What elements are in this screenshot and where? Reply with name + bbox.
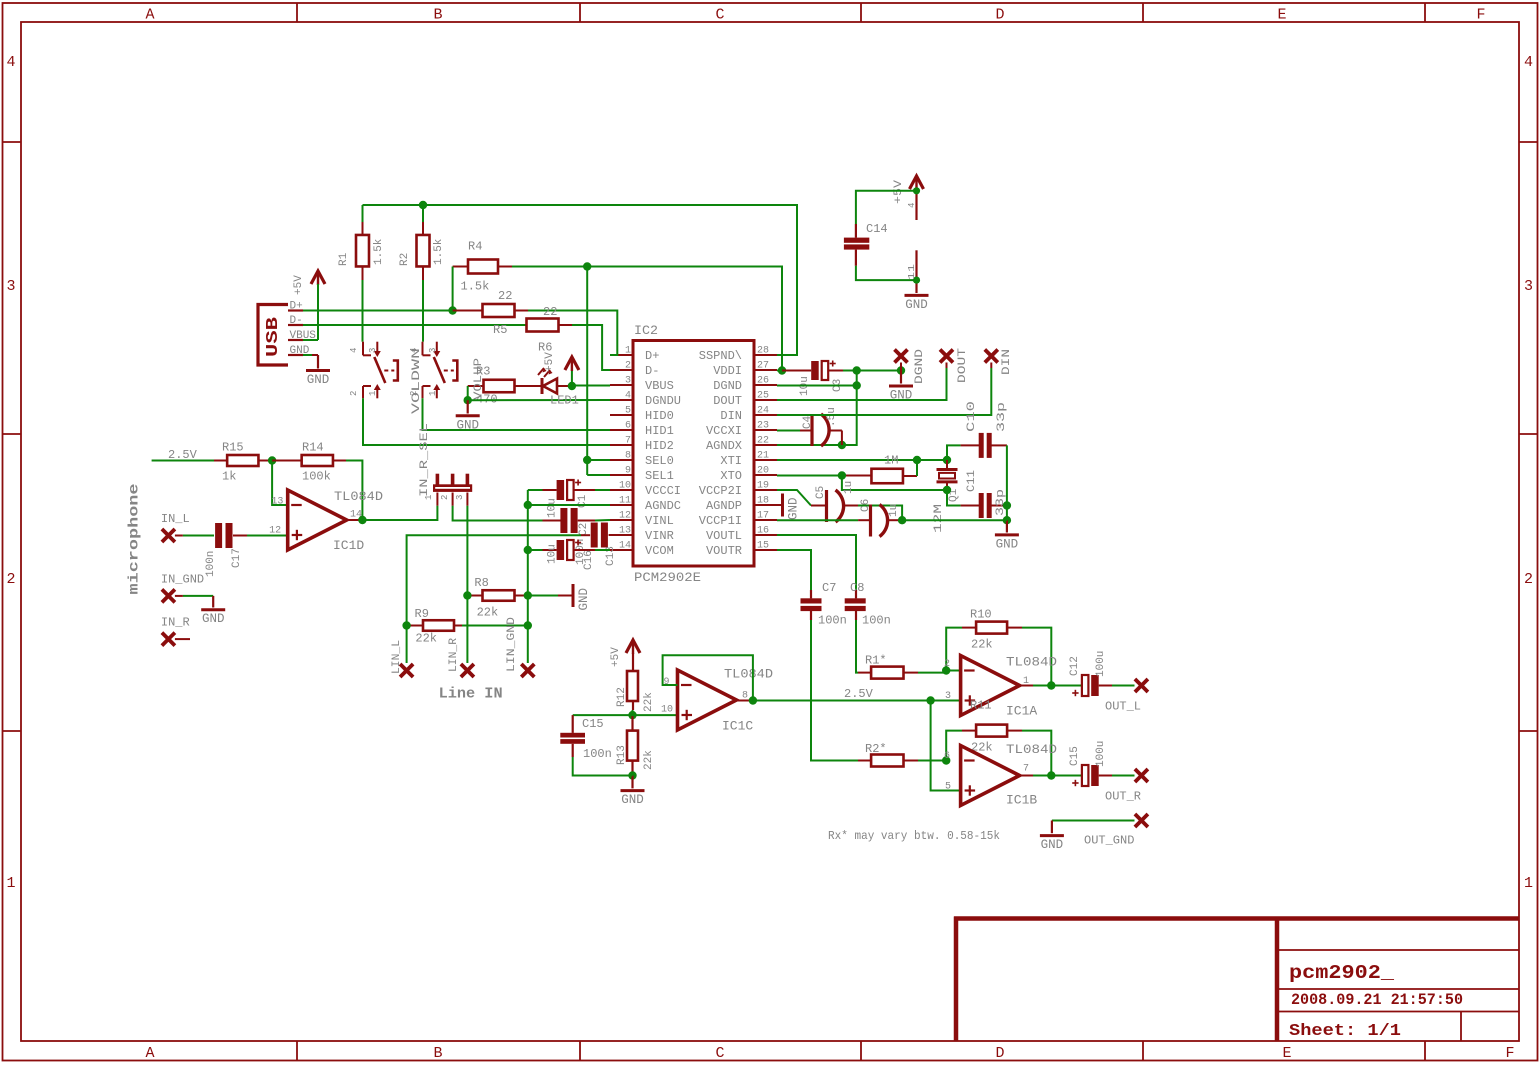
ground sideways at R8 xyxy=(528,595,558,597)
wire S2 to HID1 xyxy=(423,398,611,430)
svg-text:C14: C14 xyxy=(866,222,888,236)
svg-text:D+: D+ xyxy=(290,301,303,313)
wire VBUS to +5V xyxy=(303,339,318,341)
svg-text:VCCXI: VCCXI xyxy=(706,424,742,438)
wire junction to IC1D inverting input xyxy=(272,461,288,506)
svg-text:XTO: XTO xyxy=(720,469,742,483)
svg-text:+5V: +5V xyxy=(293,275,305,295)
svg-text:1u: 1u xyxy=(888,504,900,517)
svg-text:D: D xyxy=(995,7,1004,24)
svg-text:R15: R15 xyxy=(222,441,244,455)
svg-text:VCOM: VCOM xyxy=(645,544,674,558)
svg-text:C17: C17 xyxy=(231,548,243,568)
svg-text:100u: 100u xyxy=(1095,741,1107,767)
junction AGNDX xyxy=(838,441,846,449)
wire VOUTR pin15 xyxy=(777,550,811,590)
svg-text:GND: GND xyxy=(905,298,928,312)
IC1 power pin 4 stub xyxy=(915,189,917,220)
svg-text:GND: GND xyxy=(1041,838,1064,852)
resistor R7 1M xyxy=(777,475,842,477)
connector DOUT xyxy=(940,350,953,363)
svg-text:DIN: DIN xyxy=(1001,349,1013,375)
svg-text:22k: 22k xyxy=(643,692,655,712)
resistor R2* xyxy=(858,760,871,762)
ground at crystal caps xyxy=(1006,520,1008,532)
connector LIN_L xyxy=(400,664,413,677)
svg-text:IC1C: IC1C xyxy=(722,719,753,734)
junction LED/+5V/VBUS xyxy=(568,382,576,390)
IC2 pin 23 VCCXI xyxy=(754,429,777,431)
svg-text:7: 7 xyxy=(1023,764,1029,775)
IC2 pin 6 HID1 xyxy=(610,429,633,431)
connector OUT_L xyxy=(1135,679,1148,692)
svg-text:R12: R12 xyxy=(616,687,628,707)
wire AGNDC pin11 xyxy=(528,504,610,506)
svg-text:VCCCI: VCCCI xyxy=(645,484,681,498)
svg-text:R2*: R2* xyxy=(865,742,887,756)
wire R2* to IC1B -input xyxy=(918,760,946,762)
svg-text:8: 8 xyxy=(625,451,631,462)
svg-text:.5u: .5u xyxy=(826,407,838,427)
wire S1 to HID2 xyxy=(363,398,610,445)
svg-text:4: 4 xyxy=(625,391,631,402)
wire C17 to IC1D +input xyxy=(247,535,288,537)
IC2 pin 1 D+ xyxy=(610,354,633,356)
svg-text:15: 15 xyxy=(757,541,769,552)
wire to SEL0 pin8 xyxy=(587,459,610,461)
svg-text:100k: 100k xyxy=(302,470,331,484)
resistor R1* xyxy=(858,672,871,674)
svg-text:HID0: HID0 xyxy=(645,409,674,423)
resistor R1 xyxy=(362,205,364,222)
svg-text:GND: GND xyxy=(577,588,591,611)
svg-text:D-: D- xyxy=(645,364,659,378)
svg-text:5: 5 xyxy=(625,406,631,417)
junction R2 top xyxy=(419,201,427,209)
resistor R6 22 xyxy=(527,319,559,332)
wire D- from USB xyxy=(303,324,526,326)
junction bias mid xyxy=(632,710,634,715)
svg-text:B: B xyxy=(433,1045,442,1062)
svg-text:4: 4 xyxy=(6,54,15,71)
svg-text:DGND: DGND xyxy=(713,379,742,393)
svg-text:VINL: VINL xyxy=(645,514,674,528)
power +5V at R12 xyxy=(626,640,640,653)
svg-text:1.5k: 1.5k xyxy=(461,280,490,294)
wire R14 to IC1D output xyxy=(346,461,362,521)
capacitor C16 10u at VCOM xyxy=(528,549,543,551)
svg-text:18: 18 xyxy=(757,496,769,507)
svg-text:R5: R5 xyxy=(493,323,507,337)
svg-text:VOLDWN: VOLDWN xyxy=(411,348,423,414)
connector OUT_R xyxy=(1135,769,1148,782)
power +5V at USB xyxy=(311,271,325,284)
svg-text:C2: C2 xyxy=(578,523,590,536)
IC1A output junction xyxy=(1020,685,1033,687)
svg-text:D-: D- xyxy=(290,315,303,327)
junction R8 left xyxy=(463,591,471,599)
svg-text:9: 9 xyxy=(663,677,669,688)
capacitor C5 1u xyxy=(811,505,827,507)
wire SSPND net top rail xyxy=(363,205,798,355)
svg-text:26: 26 xyxy=(757,376,769,387)
svg-text:TL084D: TL084D xyxy=(1006,655,1057,670)
wire R4 to VDDI xyxy=(512,267,782,371)
svg-text:AGNDX: AGNDX xyxy=(706,439,742,453)
svg-text:4: 4 xyxy=(907,203,917,208)
connector IN_L xyxy=(162,529,175,542)
junction DGND pin26 xyxy=(853,381,861,389)
svg-text:R13: R13 xyxy=(616,745,628,765)
svg-text:10: 10 xyxy=(619,481,631,492)
svg-text:11: 11 xyxy=(907,264,917,280)
IC2 pin 16 VOUTL xyxy=(754,534,777,536)
wire R11 to IC1B output xyxy=(1022,731,1051,776)
frame right band dividers xyxy=(1519,141,1538,143)
svg-text:E: E xyxy=(1282,1045,1291,1062)
svg-text:2: 2 xyxy=(1524,571,1533,588)
op-amp IC1A xyxy=(961,656,1020,716)
IC2 pin 21 XTI xyxy=(754,459,777,461)
svg-text:4: 4 xyxy=(1524,54,1533,71)
svg-text:22k: 22k xyxy=(477,606,499,620)
svg-text:IC1D: IC1D xyxy=(333,538,364,553)
svg-text:1.5k: 1.5k xyxy=(433,238,445,265)
IC2 pin 12 VINL xyxy=(610,519,633,521)
capacitor C4 .5u xyxy=(777,430,800,432)
junction XTI/crystal xyxy=(943,456,951,464)
svg-text:13: 13 xyxy=(619,526,631,537)
junction R9 left xyxy=(402,621,410,629)
junction VCOM cap xyxy=(524,546,532,554)
svg-text:24: 24 xyxy=(757,406,769,417)
svg-text:IN_R: IN_R xyxy=(161,616,190,630)
resistor R2 xyxy=(422,205,424,222)
resistor R3 470 xyxy=(468,385,484,387)
svg-text:F: F xyxy=(1476,7,1485,24)
resistor R11 22k feedback xyxy=(946,731,962,761)
svg-text:16: 16 xyxy=(757,526,769,537)
capacitor C13 100n in VINR xyxy=(581,534,590,536)
IC2 pin 5 HID0 xyxy=(610,414,633,416)
svg-text:AGNDC: AGNDC xyxy=(645,499,681,513)
junction VDDI xyxy=(778,366,786,374)
IC1B output junction xyxy=(1020,775,1033,777)
svg-text:LIN_L: LIN_L xyxy=(391,640,403,674)
svg-text:C6: C6 xyxy=(860,499,872,512)
svg-text:2: 2 xyxy=(440,495,450,500)
svg-text:6: 6 xyxy=(944,751,950,762)
svg-text:1.5k: 1.5k xyxy=(373,238,385,265)
svg-text:1: 1 xyxy=(368,391,378,396)
capacitor C15 100n bias xyxy=(573,714,633,716)
IC2 pin 28 SSPND\ xyxy=(754,354,777,356)
wire IC1D output to jumper pin1 xyxy=(362,519,437,521)
svg-text:VDDI: VDDI xyxy=(713,364,742,378)
frame bottom band dividers xyxy=(296,1041,298,1061)
IC2 pin 18 AGNDP xyxy=(754,504,777,506)
svg-text:SSPND\: SSPND\ xyxy=(699,349,742,363)
wire VCCP2I pin19 diagonal xyxy=(777,490,811,506)
resistor R14 100k xyxy=(272,460,302,462)
wire R1 to switch S1 xyxy=(362,280,364,342)
svg-text:VINR: VINR xyxy=(645,529,674,543)
svg-text:E: E xyxy=(1277,7,1286,24)
svg-text:VBUS: VBUS xyxy=(645,379,674,393)
svg-text:C12: C12 xyxy=(1069,656,1081,676)
junction bias bottom xyxy=(628,771,636,779)
svg-text:R4: R4 xyxy=(468,240,482,254)
svg-text:4: 4 xyxy=(349,348,359,353)
wire jumper pin1 down to mic line xyxy=(362,506,437,520)
ground at R3 xyxy=(467,400,469,413)
svg-text:3: 3 xyxy=(428,348,438,353)
svg-text:GND: GND xyxy=(787,497,801,520)
capacitor C11 33p xyxy=(947,490,961,506)
svg-text:10u: 10u xyxy=(547,498,559,518)
IC2 pin 15 VOUTR xyxy=(754,549,777,551)
IC2 pin 22 AGNDX xyxy=(754,444,777,446)
switch S2 VOLDWN xyxy=(422,342,424,356)
wire bias to IC1C +input xyxy=(633,714,678,716)
svg-text:3: 3 xyxy=(625,376,631,387)
IC2 pin 24 DIN xyxy=(754,414,777,416)
svg-text:C15: C15 xyxy=(582,717,604,731)
wire XTO down to crystal bottom xyxy=(842,476,947,491)
junction C5/C6 gnd xyxy=(898,516,906,524)
svg-text:R9: R9 xyxy=(415,607,429,621)
wire IN_L to C17 xyxy=(183,535,214,537)
svg-text:IN_GND: IN_GND xyxy=(161,572,204,586)
IC2 pin 17 VCCP1I xyxy=(754,519,777,521)
jumper SJ1 IN_R_SEL xyxy=(433,484,472,492)
connector LIN_GND xyxy=(521,664,534,677)
svg-text:1: 1 xyxy=(6,875,15,892)
IC2 pin 8 SEL0 xyxy=(610,459,633,461)
wire to SEL1 pin9 xyxy=(587,474,610,476)
svg-text:22k: 22k xyxy=(971,638,993,652)
svg-text:R11: R11 xyxy=(970,699,992,713)
svg-text:2: 2 xyxy=(349,391,359,396)
junction C11 right xyxy=(1003,501,1011,509)
svg-text:22k: 22k xyxy=(415,632,437,646)
svg-text:100u: 100u xyxy=(1095,651,1107,677)
wire D+ from USB xyxy=(303,310,453,312)
svg-text:OUT_GND: OUT_GND xyxy=(1084,834,1134,848)
svg-text:SEL0: SEL0 xyxy=(645,454,674,468)
svg-text:100n: 100n xyxy=(205,551,217,577)
frame left band dividers xyxy=(3,141,22,143)
wire C10/C11 gnd vertical xyxy=(1006,445,1008,520)
svg-text:25: 25 xyxy=(757,391,769,402)
svg-text:PCM2902E: PCM2902E xyxy=(634,570,701,585)
svg-text:+5V: +5V xyxy=(610,647,622,667)
svg-text:A: A xyxy=(145,7,154,24)
junction R9 right GND xyxy=(524,621,532,629)
svg-text:C15: C15 xyxy=(1069,746,1081,766)
svg-text:LED1: LED1 xyxy=(550,394,579,408)
frame top band dividers xyxy=(296,3,298,22)
svg-text:TL084D: TL084D xyxy=(724,667,773,682)
svg-text:3: 3 xyxy=(1524,278,1533,295)
svg-text:DGND: DGND xyxy=(914,348,926,384)
capacitor C14 xyxy=(856,191,917,224)
gnd chain vertical at x527.8 xyxy=(527,490,529,663)
svg-text:6: 6 xyxy=(625,421,631,432)
IC2 pin 10 VCCCI xyxy=(610,489,633,491)
capacitor C6 1u xyxy=(858,519,870,521)
junction SEL0 xyxy=(583,456,591,464)
svg-text:VOUTL: VOUTL xyxy=(706,529,742,543)
capacitor C3 10u xyxy=(782,370,811,372)
svg-text:DGNDU: DGNDU xyxy=(645,394,681,408)
wire 2.5V to IC1A +input xyxy=(753,700,961,702)
connector IN_GND xyxy=(162,589,175,602)
connector DGND xyxy=(895,350,908,363)
svg-text:IC1A: IC1A xyxy=(1006,704,1037,719)
svg-text:12: 12 xyxy=(619,511,631,522)
resistor R13 22k xyxy=(631,715,633,731)
svg-text:AGNDP: AGNDP xyxy=(706,499,742,513)
connector IN_R xyxy=(162,633,175,646)
resistor R4 xyxy=(453,266,468,268)
svg-text:A: A xyxy=(145,1045,154,1062)
svg-text:12M: 12M xyxy=(933,504,945,533)
wire XTI pin21 xyxy=(777,459,947,461)
svg-text:1: 1 xyxy=(428,391,438,396)
svg-text:100n: 100n xyxy=(818,614,847,628)
junction DGND X xyxy=(897,366,905,374)
svg-text:10: 10 xyxy=(661,705,673,716)
svg-text:14: 14 xyxy=(619,541,631,552)
svg-text:R10: R10 xyxy=(970,608,992,622)
junction crystal bottom xyxy=(943,486,951,494)
svg-text:13: 13 xyxy=(271,496,283,507)
svg-text:1u: 1u xyxy=(843,481,855,494)
connector LIN_R xyxy=(461,664,474,677)
IC2 pin 4 DGNDU xyxy=(610,399,633,401)
wire DGNDU pin4 xyxy=(468,399,610,401)
svg-text:GND: GND xyxy=(202,612,225,626)
wire R4 junction down to SEL0/SEL1 xyxy=(586,267,588,476)
svg-text:+5V: +5V xyxy=(544,352,556,372)
switch S1 xyxy=(362,342,364,356)
wire AGNDX pin22 xyxy=(777,444,842,446)
resistor R8 22k xyxy=(483,590,515,601)
resistor R15 1k xyxy=(214,460,227,462)
svg-text:17: 17 xyxy=(757,511,769,522)
ground below R13 xyxy=(631,776,633,789)
svg-text:2: 2 xyxy=(944,659,950,670)
LED LED1 xyxy=(541,378,544,394)
svg-text:D+: D+ xyxy=(645,349,659,363)
svg-text:R1*: R1* xyxy=(865,654,887,668)
IC2 pin 3 VBUS xyxy=(610,384,633,386)
svg-text:C: C xyxy=(715,1045,724,1062)
junction C3 right xyxy=(853,366,861,374)
junction DGNDU/GND xyxy=(464,396,472,404)
ground at DGND xyxy=(900,371,902,384)
wire DGND pin26 xyxy=(777,385,857,387)
svg-text:3: 3 xyxy=(6,278,15,295)
svg-text:C11: C11 xyxy=(966,470,978,492)
svg-text:19: 19 xyxy=(757,481,769,492)
svg-text:IN_L: IN_L xyxy=(161,512,190,526)
svg-text:Rx* may vary btw. 0.58-15k: Rx* may vary btw. 0.58-15k xyxy=(828,829,1000,843)
wire VOUTL pin16 xyxy=(777,535,856,590)
svg-text:3: 3 xyxy=(945,691,951,702)
svg-text:R8: R8 xyxy=(474,576,488,590)
wire C6 to gnd junction xyxy=(899,519,1007,521)
svg-text:C7: C7 xyxy=(822,581,836,595)
wire R2 to switch S2 xyxy=(422,280,424,342)
svg-text:DOUT: DOUT xyxy=(957,347,969,383)
wire VDDI pin27 xyxy=(777,370,782,372)
wire C8 to R1* xyxy=(856,620,858,673)
wire LIN_L up to C13/VINR xyxy=(407,535,581,663)
IC2 pin 7 HID2 xyxy=(610,444,633,446)
svg-text:TL084D: TL084D xyxy=(334,489,383,504)
svg-text:GND: GND xyxy=(996,537,1019,551)
IC2 pin 13 VINR xyxy=(610,534,633,536)
svg-text:HID2: HID2 xyxy=(645,439,674,453)
capacitor C7 100n xyxy=(810,590,812,598)
svg-text:3: 3 xyxy=(455,495,465,500)
svg-text:C4: C4 xyxy=(802,415,814,429)
svg-text:2: 2 xyxy=(6,571,15,588)
svg-text:IN_R_SEL: IN_R_SEL xyxy=(419,423,431,497)
svg-text:VCCP1I: VCCP1I xyxy=(699,514,742,528)
svg-text:C10: C10 xyxy=(966,401,978,432)
power +5V at C14 xyxy=(910,176,924,189)
svg-text:VOLUP: VOLUP xyxy=(473,358,485,400)
svg-text:2008.09.21 21:57:50: 2008.09.21 21:57:50 xyxy=(1291,991,1463,1009)
IC2 pin 27 VDDI xyxy=(754,369,777,371)
capacitor C8 100n xyxy=(855,590,857,598)
svg-text:22: 22 xyxy=(498,289,512,303)
wire jumper pin3 down to R8 xyxy=(466,506,468,596)
svg-text:21: 21 xyxy=(757,451,769,462)
svg-text:1: 1 xyxy=(625,346,631,357)
resistor R9 22k xyxy=(423,620,454,631)
ground at OUT_GND xyxy=(1040,834,1064,837)
IC2 pin 11 AGNDC xyxy=(610,504,633,506)
IC1C output junction xyxy=(737,700,753,702)
svg-text:LIN_GND: LIN_GND xyxy=(506,617,518,672)
capacitor C15 100u output xyxy=(1051,775,1082,777)
svg-text:33p: 33p xyxy=(996,402,1008,432)
IC2 pin 19 VCCP2I xyxy=(754,489,777,491)
connector OUT_GND xyxy=(1135,814,1148,827)
svg-text:microphone: microphone xyxy=(127,484,143,595)
wire 2.5V to R15 xyxy=(152,460,214,462)
ground at IN_GND xyxy=(183,595,213,597)
capacitor C2 100n in VINL xyxy=(543,520,561,522)
IC1 power pin 11 stub xyxy=(915,250,917,293)
svg-text:R2: R2 xyxy=(399,253,411,266)
wire gnd vertical to AGNDX xyxy=(842,371,857,446)
svg-text:3: 3 xyxy=(368,348,378,353)
svg-text:OUT_R: OUT_R xyxy=(1105,790,1141,804)
op-amp IC2 body PCM2902E xyxy=(633,341,754,567)
IC2 pin 26 DGND xyxy=(754,384,777,386)
wire 2.5V to IC1B +input xyxy=(931,701,961,791)
svg-text:GND: GND xyxy=(621,793,644,807)
junction AGNDC xyxy=(524,501,532,509)
IC1D output junction xyxy=(347,519,363,521)
svg-text:R14: R14 xyxy=(302,441,324,455)
svg-text:B: B xyxy=(433,7,442,24)
